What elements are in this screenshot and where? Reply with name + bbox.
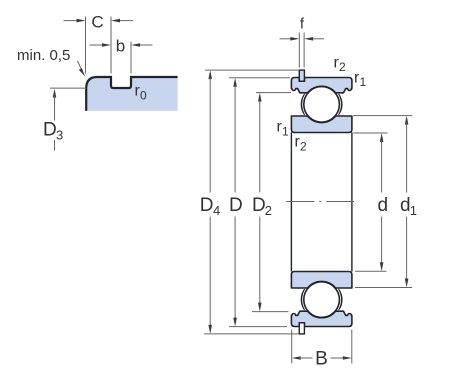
label b [116, 37, 125, 56]
svg-text:0: 0 [140, 89, 147, 103]
D4 extension lines [204, 70, 299, 334]
label r1 left [277, 119, 290, 139]
d extension lines [353, 133, 388, 271]
svg-text:b: b [116, 37, 125, 56]
label min. 0,5 with leader arrow [17, 47, 85, 77]
right raceway crescent (top) [339, 94, 342, 115]
left raceway crescent (bottom) [301, 289, 304, 310]
outer ring bottom half [291, 311, 352, 326]
dimension D3 extension line [50, 87, 86, 89]
svg-text:min. 0,5: min. 0,5 [17, 47, 70, 64]
label D3 [43, 120, 63, 143]
dimension B [292, 356, 352, 360]
left raceway crescent (top) [301, 94, 304, 115]
right raceway crescent (bottom) [339, 289, 342, 310]
dimension f arrows [280, 37, 325, 41]
svg-text:2: 2 [339, 60, 346, 74]
svg-text:2: 2 [265, 203, 272, 218]
svg-text:4: 4 [213, 203, 220, 218]
ring section outline (top surface, corner, groove) [86, 77, 177, 111]
dimension d [380, 133, 384, 271]
svg-text:d: d [378, 195, 389, 216]
svg-text:D: D [200, 195, 214, 216]
ring section fill [86, 77, 177, 111]
svg-text:C: C [91, 13, 103, 32]
label r2 top [334, 55, 347, 75]
snap ring (bottom, open groove) [299, 323, 304, 334]
d1 extension lines [353, 116, 412, 288]
label d [378, 195, 389, 216]
inner ring bottom half [291, 272, 352, 289]
dimension D3 arrow line [53, 89, 57, 151]
svg-text:D: D [252, 195, 266, 216]
label r1 top right [354, 70, 367, 90]
label D [229, 195, 243, 216]
label C [91, 13, 103, 32]
inner ring top half [291, 116, 352, 133]
svg-text:B: B [315, 349, 328, 370]
label r0 [135, 83, 148, 103]
dimension f extension lines [299, 33, 304, 68]
svg-text:1: 1 [282, 125, 289, 139]
dimension d1 [405, 116, 409, 288]
dimension D4 [208, 70, 212, 334]
dimension C extension lines [86, 17, 112, 74]
outer ring top half [291, 78, 352, 93]
dimension C arrows [64, 19, 134, 23]
label r2 left lower [295, 134, 308, 154]
svg-text:D: D [43, 120, 57, 141]
label d1 [400, 195, 417, 218]
label D4 [200, 195, 220, 218]
dimension b right extension line [130, 42, 132, 74]
svg-text:2: 2 [300, 140, 307, 154]
svg-text:1: 1 [410, 203, 417, 218]
label f [300, 16, 305, 33]
snap ring (top) [299, 70, 304, 81]
centerline [286, 201, 355, 203]
dimension b arrows [90, 43, 153, 47]
svg-text:1: 1 [360, 75, 367, 89]
label D2 [252, 195, 272, 218]
ball (bottom) [304, 282, 340, 318]
dimension D [233, 78, 237, 327]
svg-text:D: D [229, 195, 243, 216]
D2 extension lines [252, 93, 291, 312]
bearing side faces in bore region [291, 133, 352, 272]
svg-text:3: 3 [56, 128, 63, 143]
D extension lines [229, 78, 290, 327]
svg-text:f: f [300, 16, 305, 33]
B extension lines [292, 330, 352, 364]
ball (top) [304, 87, 340, 123]
label B [315, 349, 328, 370]
dimension D2 [258, 93, 262, 312]
